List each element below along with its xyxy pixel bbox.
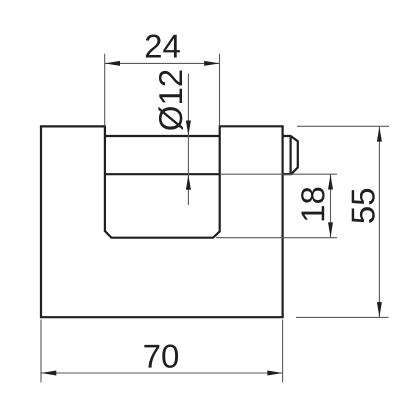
body top edge right segment bbox=[220, 125, 284, 127]
dim 18 top extension line (pin bottom prolongation) bbox=[220, 173, 337, 175]
diameter leader upper arrow (points down to pin top) bbox=[186, 121, 191, 136]
shackle slot recess bbox=[105, 125, 220, 237]
dim 18 label bbox=[301, 188, 324, 221]
dim 18 bottom extension line (slot bottom prolongation) bbox=[216, 237, 337, 239]
dim 70 right arrow bbox=[267, 371, 282, 376]
dim 18 bottom arrow bbox=[328, 222, 333, 237]
body top edge left segment bbox=[40, 125, 105, 127]
dim 70 left extension line bbox=[40, 320, 42, 383]
diameter label O12 bbox=[158, 70, 182, 130]
dim 55 top arrow bbox=[377, 127, 382, 142]
dim 18 top arrow bbox=[328, 175, 333, 190]
dim 18 dimension line bbox=[330, 174, 332, 238]
dim 70 label bbox=[144, 345, 178, 368]
shackle end cap bbox=[283, 136, 298, 174]
dim 55 dimension line bbox=[378, 126, 380, 317]
dim 24 left arrow bbox=[105, 61, 120, 66]
shackle pin bottom edge bbox=[105, 173, 220, 175]
dim 24 label bbox=[146, 34, 180, 57]
dim 70 left arrow bbox=[41, 371, 56, 376]
dim 24 dimension line bbox=[105, 62, 220, 64]
dim 70 dimension line bbox=[41, 372, 283, 374]
shackle end cap inner flange line bbox=[290, 136, 292, 174]
dim 55 bottom arrow bbox=[377, 302, 382, 317]
diameter leader line bbox=[187, 74, 189, 206]
dim 24 right arrow bbox=[204, 61, 219, 66]
dim 24 right extension line bbox=[219, 54, 221, 127]
dim 70 right extension line bbox=[282, 320, 284, 383]
padlock body outline bbox=[41, 126, 283, 317]
dim 55 label bbox=[352, 189, 375, 223]
dim 55 top extension line bbox=[297, 125, 389, 127]
dim 24 left extension line bbox=[104, 54, 106, 127]
dim 55 bottom extension line bbox=[296, 316, 389, 318]
diameter leader lower arrow (points up to pin bottom) bbox=[186, 175, 191, 190]
shackle pin top edge bbox=[105, 135, 220, 137]
